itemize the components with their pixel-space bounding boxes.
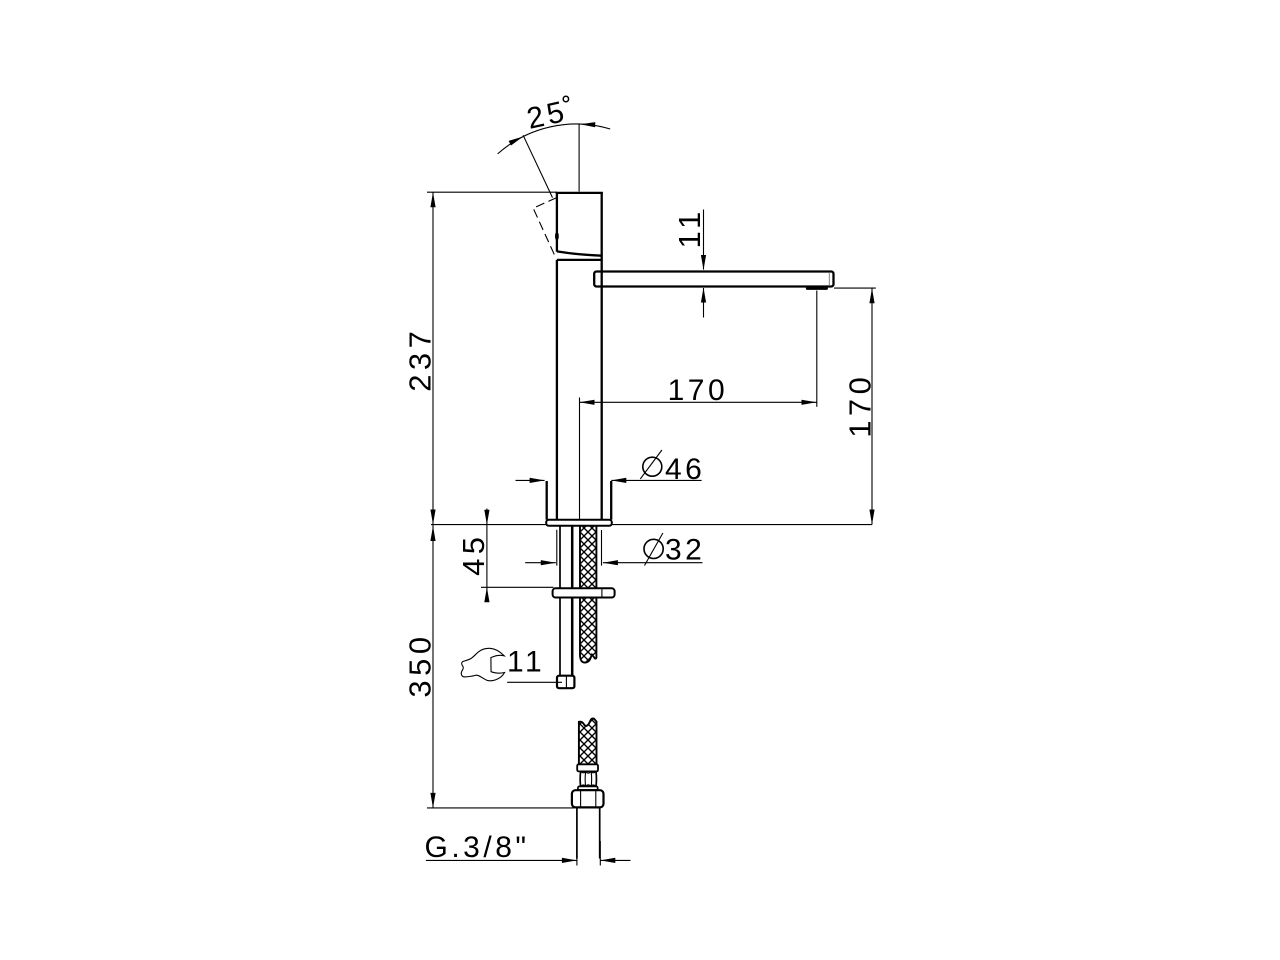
node handle block [556, 192, 603, 256]
node hose upper segment [580, 526, 596, 663]
node wrench icon [461, 648, 504, 680]
node spout [594, 272, 833, 287]
node handle pivot dot [555, 232, 559, 241]
wire dim d32 right [603, 562, 703, 564]
wire 350 bottom extension [427, 807, 575, 809]
node hose nipple [580, 771, 596, 786]
wire dim d32 left [525, 562, 556, 564]
node arrow 237 bottom [430, 510, 435, 525]
svg-text:350: 350 [403, 632, 438, 697]
node arrow 350 bottom [430, 793, 435, 808]
wire 170v top extension [834, 287, 876, 289]
wire 170h right extension [816, 291, 818, 407]
wire d32 stub right [601, 530, 603, 566]
node arrow d46 left [530, 478, 545, 483]
wire dim 11 spout lower [703, 288, 705, 318]
node arrow d32 right [603, 560, 618, 565]
node degree symbol [563, 96, 568, 101]
node arrow 170h right [802, 400, 817, 405]
node arrow 45 top [484, 510, 489, 525]
svg-text:237: 237 [403, 327, 438, 392]
svg-text:45: 45 [456, 532, 491, 575]
node arrow 170v bottom [869, 510, 874, 525]
node arrow G right [600, 858, 615, 863]
wire G extension left [576, 841, 578, 866]
node aerator [806, 287, 828, 290]
node 25 degree vertical extension [578, 123, 580, 191]
wire G extension right [599, 841, 601, 866]
node arrow 11 bottom [701, 288, 706, 303]
node threaded stud [571, 526, 574, 676]
node handle dashed rotated outline [533, 198, 556, 258]
node 25 degree arc [498, 124, 611, 154]
wire dim 11 spout upper [703, 210, 705, 270]
node base flare [547, 481, 612, 520]
node under-deck rod left [559, 526, 561, 676]
node clamp plate [553, 588, 615, 597]
wire d32 stub left [556, 530, 558, 566]
node hose lower segment [579, 719, 597, 765]
node arrow 170h left [580, 400, 595, 405]
node arc arrow right [580, 122, 595, 127]
node connection nut [572, 790, 604, 807]
svg-text:11: 11 [507, 646, 545, 679]
node arc arrow left [509, 137, 524, 146]
wire dim G left [426, 859, 577, 861]
node arrow 170v top [869, 288, 874, 303]
wire dim G right [600, 859, 630, 861]
svg-text:170: 170 [668, 374, 729, 407]
node body column [557, 255, 602, 519]
wire dim d46 left [516, 479, 545, 481]
node arrow 237 top [430, 192, 435, 207]
svg-text:170: 170 [843, 373, 878, 438]
wire dim d46 right [611, 479, 701, 481]
wire wrench leader [507, 681, 562, 683]
node arrow 11 top [701, 255, 706, 270]
svg-text:11: 11 [672, 207, 707, 248]
node base flange [546, 520, 612, 526]
wire 237/350 dimension line [432, 192, 434, 808]
wire 45 bottom extension [481, 586, 554, 588]
node arrow 45 bottom [484, 587, 489, 602]
wire 170h left extension [579, 398, 581, 521]
wire dim 170 horizontal [580, 401, 817, 403]
node arrow d32 left [541, 560, 556, 565]
node 25 degree tilted extension [523, 135, 552, 197]
node G3/8 pipe [577, 807, 600, 859]
svg-text:G.3/8": G.3/8" [425, 831, 530, 864]
svg-text:46: 46 [665, 453, 705, 486]
node nipple collar [578, 786, 598, 790]
wire dim 170 vertical [871, 288, 873, 524]
node stud nut [557, 676, 574, 689]
svg-text:32: 32 [665, 534, 705, 567]
wire counter line [431, 524, 872, 526]
node label d46 [640, 450, 705, 486]
node arrow G left [562, 858, 577, 863]
node spout end cap line [828, 273, 830, 285]
node label d32 [644, 533, 705, 567]
node arrow d46 right [611, 478, 626, 483]
wire dim 45 [486, 509, 488, 602]
wire 237 top extension line [427, 191, 557, 193]
node arrow 350 top [430, 526, 435, 541]
node hose ferrule [577, 764, 598, 771]
